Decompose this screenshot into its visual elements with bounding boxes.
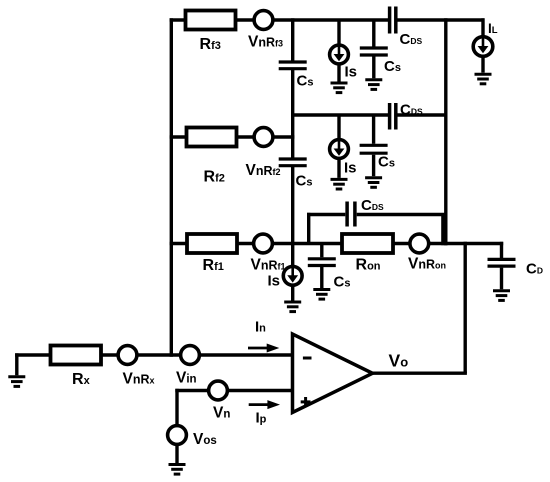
wire right bus thick overlap [441,216,447,245]
op-amp U1 [293,334,373,413]
wire row 3 CDS drop [307,213,310,244]
wire top row 1 left segment [170,18,388,21]
wire middle bus segment between caps [291,70,294,158]
svg-text:Is: Is [268,273,281,290]
wire opamp output vertical [464,242,467,373]
resistor Rf1 [187,234,237,253]
arrow Ip [249,400,280,409]
wire opamp output horizontal [372,372,467,375]
wire left ground stem [15,353,18,375]
wire left bus [170,18,173,356]
capacitor Cs row2-b [360,145,388,153]
svg-text:Is: Is [344,160,357,177]
ground Cs row1-b [365,80,382,90]
capacitor CD [488,259,516,266]
arrow In [248,344,279,353]
wire Cs row3 ground stem [320,267,323,288]
wire Is2 ground stem [337,159,340,178]
wire row 2 main [170,135,295,138]
capacitor Cs row3 [308,259,336,266]
wire row 2 CDS line right [397,113,447,116]
resistor Ron [342,234,393,253]
capacitor CDS row2 series [390,103,396,130]
ground IL [475,74,492,84]
resistor Rx [51,346,102,365]
voltage source VnRf3 [254,11,273,30]
resistor Rf2 [187,128,237,147]
voltage source VnRf1 [254,234,273,253]
wire top row 1 right segment [397,18,484,21]
ground Cs row2-b [365,178,382,188]
wire middle bus lower segment [291,167,294,245]
voltage source VnRon [410,234,429,253]
wire row 3 main [170,242,504,245]
wire bottom input [15,353,294,356]
capacitor CDS row3 series [347,202,355,227]
ground Is3 [284,302,301,312]
wire right bus [444,18,447,245]
wire CD ground stem [500,268,503,290]
wire middle bus upper segment [291,18,294,60]
wire Is3 ground stem [291,285,294,300]
ground CD [493,291,510,301]
wire Is1 stub [337,20,340,45]
op-amp minus sign [303,357,312,360]
wire Vn corner down to Vos [175,389,178,425]
ground Is2 [331,179,348,189]
wire Is1 ground stem [337,64,340,82]
ground Cs row3 [313,290,330,300]
wire Cs row3 stub [320,244,323,258]
capacitor Cs row1-b [360,48,388,55]
op-amp plus sign [301,397,311,407]
current source Is2 [330,139,349,159]
wire Vn to opamp [175,389,294,392]
wire Vos to ground stem [175,445,178,463]
svg-text:Is: Is [345,64,358,81]
current source IL [473,36,493,56]
ground Is1 [331,83,348,93]
wire Cs row2-b ground stem [372,155,375,177]
capacitor Cs row2 shunt at bus [279,159,307,166]
wire row 2 CDS line left [291,113,388,116]
current source Is3 [283,265,302,285]
capacitor Cs row1 shunt at bus [279,62,307,69]
voltage source Vin [181,346,200,365]
wire Cs row1-b stub [372,20,375,47]
wire IL ground stem [481,56,484,73]
wire IL stub [481,18,484,37]
voltage source Vn [209,381,228,400]
wire Is3 stub [291,244,294,267]
wire row 3 CDS line right [357,213,448,216]
voltage source Vos [168,426,187,445]
current source Is1 [330,44,349,64]
wire Cs row1-b ground stem [372,57,375,79]
wire Is2 stub [337,115,340,140]
ground below Vos [169,465,186,475]
wire row 3 CDS line left [307,213,345,216]
voltage source VnRx [118,346,137,365]
ground left [8,377,25,387]
voltage source VnRf2 [254,128,273,147]
wire Cs row2-b stub [372,115,375,144]
resistor Rf3 [186,11,236,30]
wire CD stem [500,242,503,258]
capacitor CDS row1 series [390,7,396,34]
